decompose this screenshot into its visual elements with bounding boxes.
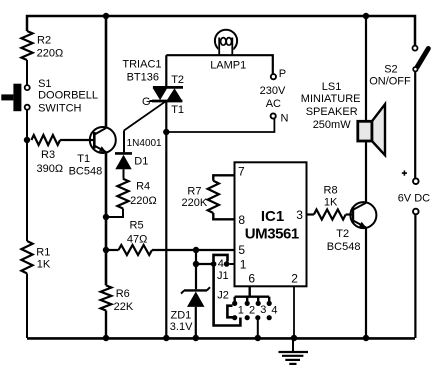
svg-text:J1: J1	[217, 270, 229, 282]
resistor R4	[117, 179, 156, 209]
svg-text:T2: T2	[171, 74, 184, 86]
ground	[279, 338, 309, 364]
svg-text:UM3561: UM3561	[245, 225, 299, 242]
wire speaker to T2 collector	[365, 16, 367, 203]
wire J2 pad3 to ground rail	[257, 318, 259, 338]
node ground junction	[291, 335, 297, 341]
wire J1 stub	[196, 263, 214, 265]
svg-text:6V DC: 6V DC	[398, 192, 430, 204]
op-amp IC1 UM3561	[235, 162, 307, 286]
svg-text:1: 1	[240, 258, 247, 272]
wire T1 collector	[105, 16, 108, 128]
svg-text:4: 4	[218, 258, 224, 270]
svg-text:AC: AC	[266, 98, 281, 110]
lamp LAMP1	[210, 30, 246, 72]
switch S2 ON/OFF	[369, 46, 428, 88]
wire T1 emitter rail	[105, 152, 108, 285]
svg-text:220K: 220K	[182, 197, 208, 209]
svg-text:3: 3	[260, 304, 266, 316]
svg-text:T1: T1	[77, 153, 90, 165]
wire IC pin6 comb	[235, 286, 270, 301]
node R4 junction	[103, 214, 109, 220]
switch S1 pushbutton	[1, 78, 98, 114]
svg-text:SPEAKER: SPEAKER	[306, 106, 358, 118]
wire gate to D1	[123, 131, 125, 153]
node J1 junction	[193, 261, 199, 267]
battery 6V DC	[398, 171, 430, 215]
resistor R3	[31, 135, 63, 175]
wire S1 to node	[26, 110, 28, 140]
resistor R6	[101, 285, 134, 312]
node top-T1 junction	[103, 13, 109, 19]
resistor R8	[307, 184, 353, 219]
svg-text:390Ω: 390Ω	[37, 163, 64, 175]
svg-text:R4: R4	[136, 181, 150, 193]
svg-text:6: 6	[248, 272, 255, 286]
node R6 bottom junction	[103, 335, 109, 341]
wire top rail	[27, 16, 415, 46]
svg-text:1: 1	[238, 304, 244, 316]
svg-text:R8: R8	[324, 184, 338, 196]
svg-text:R1: R1	[36, 247, 50, 259]
wire triac to bottom rail	[165, 132, 167, 338]
svg-text:LAMP1: LAMP1	[210, 60, 246, 72]
svg-text:TRIAC1: TRIAC1	[122, 59, 161, 71]
node zener bottom junction	[193, 335, 199, 341]
node pad3 bottom junction	[255, 335, 261, 341]
svg-text:IC1: IC1	[261, 208, 284, 225]
diode D1 1N4001	[115, 138, 162, 179]
svg-text:R7: R7	[187, 185, 201, 197]
terminal N	[271, 113, 289, 125]
svg-text:BC548: BC548	[69, 165, 103, 177]
wire zener branch	[195, 250, 197, 264]
wire to zener	[195, 264, 197, 289]
zener ZD1 3.1V	[170, 287, 210, 338]
wire T2 emitter to rail	[365, 227, 367, 338]
wire node to R1	[26, 140, 28, 241]
svg-text:N: N	[281, 113, 289, 125]
svg-text:BT136: BT136	[127, 71, 159, 83]
jumper J2	[217, 290, 233, 318]
svg-text:2: 2	[249, 304, 255, 316]
svg-text:1N4001: 1N4001	[127, 138, 162, 149]
wire lamp branch	[166, 55, 272, 74]
svg-text:R3: R3	[41, 149, 55, 161]
svg-text:1K: 1K	[37, 259, 51, 271]
resistor R7	[182, 175, 235, 219]
node top-speaker junction	[363, 13, 369, 19]
svg-text:S1: S1	[38, 78, 51, 90]
node triac bottom junction	[163, 335, 169, 341]
svg-text:3.1V: 3.1V	[170, 321, 193, 333]
svg-text:S2: S2	[384, 63, 397, 75]
terminal P 230V AC	[260, 68, 286, 110]
svg-text:47Ω: 47Ω	[127, 234, 147, 246]
node R3 junction	[24, 137, 30, 143]
svg-text:D1: D1	[134, 156, 148, 168]
speaker LS1	[301, 81, 385, 155]
svg-text:7: 7	[238, 165, 245, 179]
svg-text:T2: T2	[336, 228, 349, 240]
svg-text:R5: R5	[130, 220, 144, 232]
svg-text:2: 2	[291, 272, 298, 286]
jumper J2 pads	[232, 301, 277, 321]
wire battery to bottom rail	[414, 215, 416, 338]
svg-text:8: 8	[238, 213, 245, 227]
svg-text:T1: T1	[171, 104, 184, 116]
wire bottom rail	[27, 337, 415, 340]
wire R4 to rail	[106, 209, 123, 218]
wire triac gate diagonal	[124, 102, 165, 131]
svg-text:3: 3	[296, 208, 303, 222]
svg-text:220Ω: 220Ω	[37, 47, 64, 59]
resistor R5	[106, 220, 235, 255]
svg-text:R6: R6	[116, 288, 130, 300]
wire IC pin2 to ground	[293, 286, 295, 338]
wire R1 to bottom rail	[26, 273, 28, 338]
svg-text:MINIATURE: MINIATURE	[301, 93, 361, 105]
transistor T2 BC548	[327, 202, 377, 253]
svg-text:BC548: BC548	[327, 241, 361, 253]
svg-text:250mW: 250mW	[313, 119, 352, 131]
wire R3 to T1 base	[60, 139, 94, 141]
wire J1 to J2 pad	[214, 264, 241, 326]
wire S2 to battery	[414, 71, 416, 178]
svg-text:P: P	[279, 68, 286, 80]
svg-text:R2: R2	[37, 35, 51, 47]
svg-text:4: 4	[271, 304, 277, 316]
svg-text:DOORBELL: DOORBELL	[38, 90, 98, 102]
svg-text:230V: 230V	[260, 85, 286, 97]
svg-text:1K: 1K	[324, 197, 338, 209]
wire J1 to IC pin1	[229, 263, 234, 265]
transistor T1 BC548	[69, 127, 116, 177]
svg-text:LS1: LS1	[322, 81, 342, 93]
wire R6 to bottom rail	[105, 311, 107, 339]
svg-text:5: 5	[238, 243, 245, 257]
svg-text:G: G	[142, 96, 151, 108]
svg-text:J2: J2	[217, 290, 229, 302]
jumper J1	[211, 255, 230, 282]
svg-text:220Ω: 220Ω	[130, 195, 157, 207]
node R5 junction	[103, 247, 109, 253]
svg-text:SWITCH: SWITCH	[38, 102, 81, 114]
wire R2 to S1	[26, 60, 28, 85]
svg-text:22K: 22K	[114, 301, 134, 313]
node triac T1 junction	[163, 129, 169, 135]
node T2 emitter junction	[363, 335, 369, 341]
svg-text:ZD1: ZD1	[171, 310, 192, 322]
wire N to triac T1	[166, 119, 274, 132]
triac TRIAC1 BT136	[122, 55, 184, 132]
resistor R1	[21, 241, 51, 273]
svg-text:ON/OFF: ON/OFF	[369, 76, 411, 88]
resistor R2	[21, 31, 63, 60]
node zener junction	[193, 247, 199, 253]
